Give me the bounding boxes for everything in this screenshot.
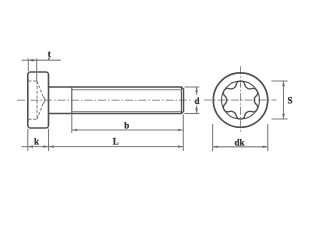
hidden torx recess: bottom face vertical	[36, 81, 38, 119]
dimension t: left extension	[27, 58, 29, 71]
dimension k: left extension (head left face)	[27, 129, 29, 151]
dimension d: bottom extension	[185, 113, 200, 115]
dimension S: bottom extension	[272, 118, 288, 120]
hidden recess cone upper flank	[37, 81, 43, 97]
dimension b: line	[72, 129, 184, 131]
dimension S: top arrow	[282, 81, 285, 86]
hidden recess cone lower flank	[37, 104, 43, 120]
dimension b: right arrow	[178, 129, 183, 132]
dimension L: right arrow	[178, 145, 183, 148]
thread minor diameter line bottom	[72, 111, 182, 113]
thread runout boundary line	[71, 87, 73, 114]
svg-text:t: t	[48, 49, 51, 59]
svg-text:k: k	[34, 137, 39, 147]
tip chamfer line	[180, 87, 182, 113]
svg-text:L: L	[113, 136, 119, 146]
end view: torx star recess	[223, 81, 257, 119]
dimension t: left arrow	[28, 59, 33, 62]
dimension b: left arrow	[72, 129, 77, 132]
dimension dk: left arrow	[213, 146, 218, 149]
hidden torx recess: top wall	[28, 80, 37, 82]
thread minor diameter line top	[72, 89, 182, 91]
svg-text:b: b	[124, 121, 129, 131]
end view: horizontal centerline	[204, 99, 277, 101]
dimension L: left arrow	[49, 145, 54, 148]
dimension d: line lower segment	[196, 106, 198, 114]
dimension dk: right extension	[267, 124, 269, 151]
screw head outline (side view)	[28, 72, 49, 128]
hidden recess cone tip arc	[43, 97, 45, 104]
dimension d: top arrow	[195, 87, 198, 92]
svg-text:S: S	[287, 95, 292, 105]
end view: inner circle (torx tip circle)	[222, 81, 260, 119]
dimension d: top extension	[185, 86, 200, 88]
wire: main centerline of side view	[17, 99, 192, 101]
dimension dk: right arrow	[263, 146, 268, 149]
svg-text:dk: dk	[234, 138, 244, 148]
dimension S: top extension	[272, 80, 288, 82]
svg-text:d: d	[194, 96, 199, 106]
shank outline with chamfered tip	[49, 87, 184, 114]
end view: outer circle (head)	[213, 73, 267, 127]
dimension S: line	[283, 81, 285, 119]
dimension t: right arrow	[32, 59, 37, 62]
dimension t: right extension	[36, 58, 38, 81]
end view: vertical centerline	[240, 66, 242, 133]
dimension dk: left extension	[212, 124, 214, 151]
dimension d: bottom arrow	[195, 108, 198, 113]
dimension d: line upper segment	[196, 87, 198, 95]
dimension t: line	[22, 59, 61, 61]
leader arrow under t	[48, 58, 50, 61]
dimension S: bottom arrow	[282, 114, 285, 119]
dimension k/L: shared bottom line	[22, 146, 184, 148]
hidden torx recess: bottom wall	[28, 118, 37, 120]
dimension k: right arrow	[43, 145, 48, 148]
dimension b: left extension	[71, 114, 73, 134]
dimension L: right extension (screw tip)	[182, 114, 184, 151]
dimension k: left arrow	[28, 145, 33, 148]
dimension k/L: shared extension (head right face)	[48, 129, 50, 151]
dimension dk: line	[213, 146, 268, 148]
